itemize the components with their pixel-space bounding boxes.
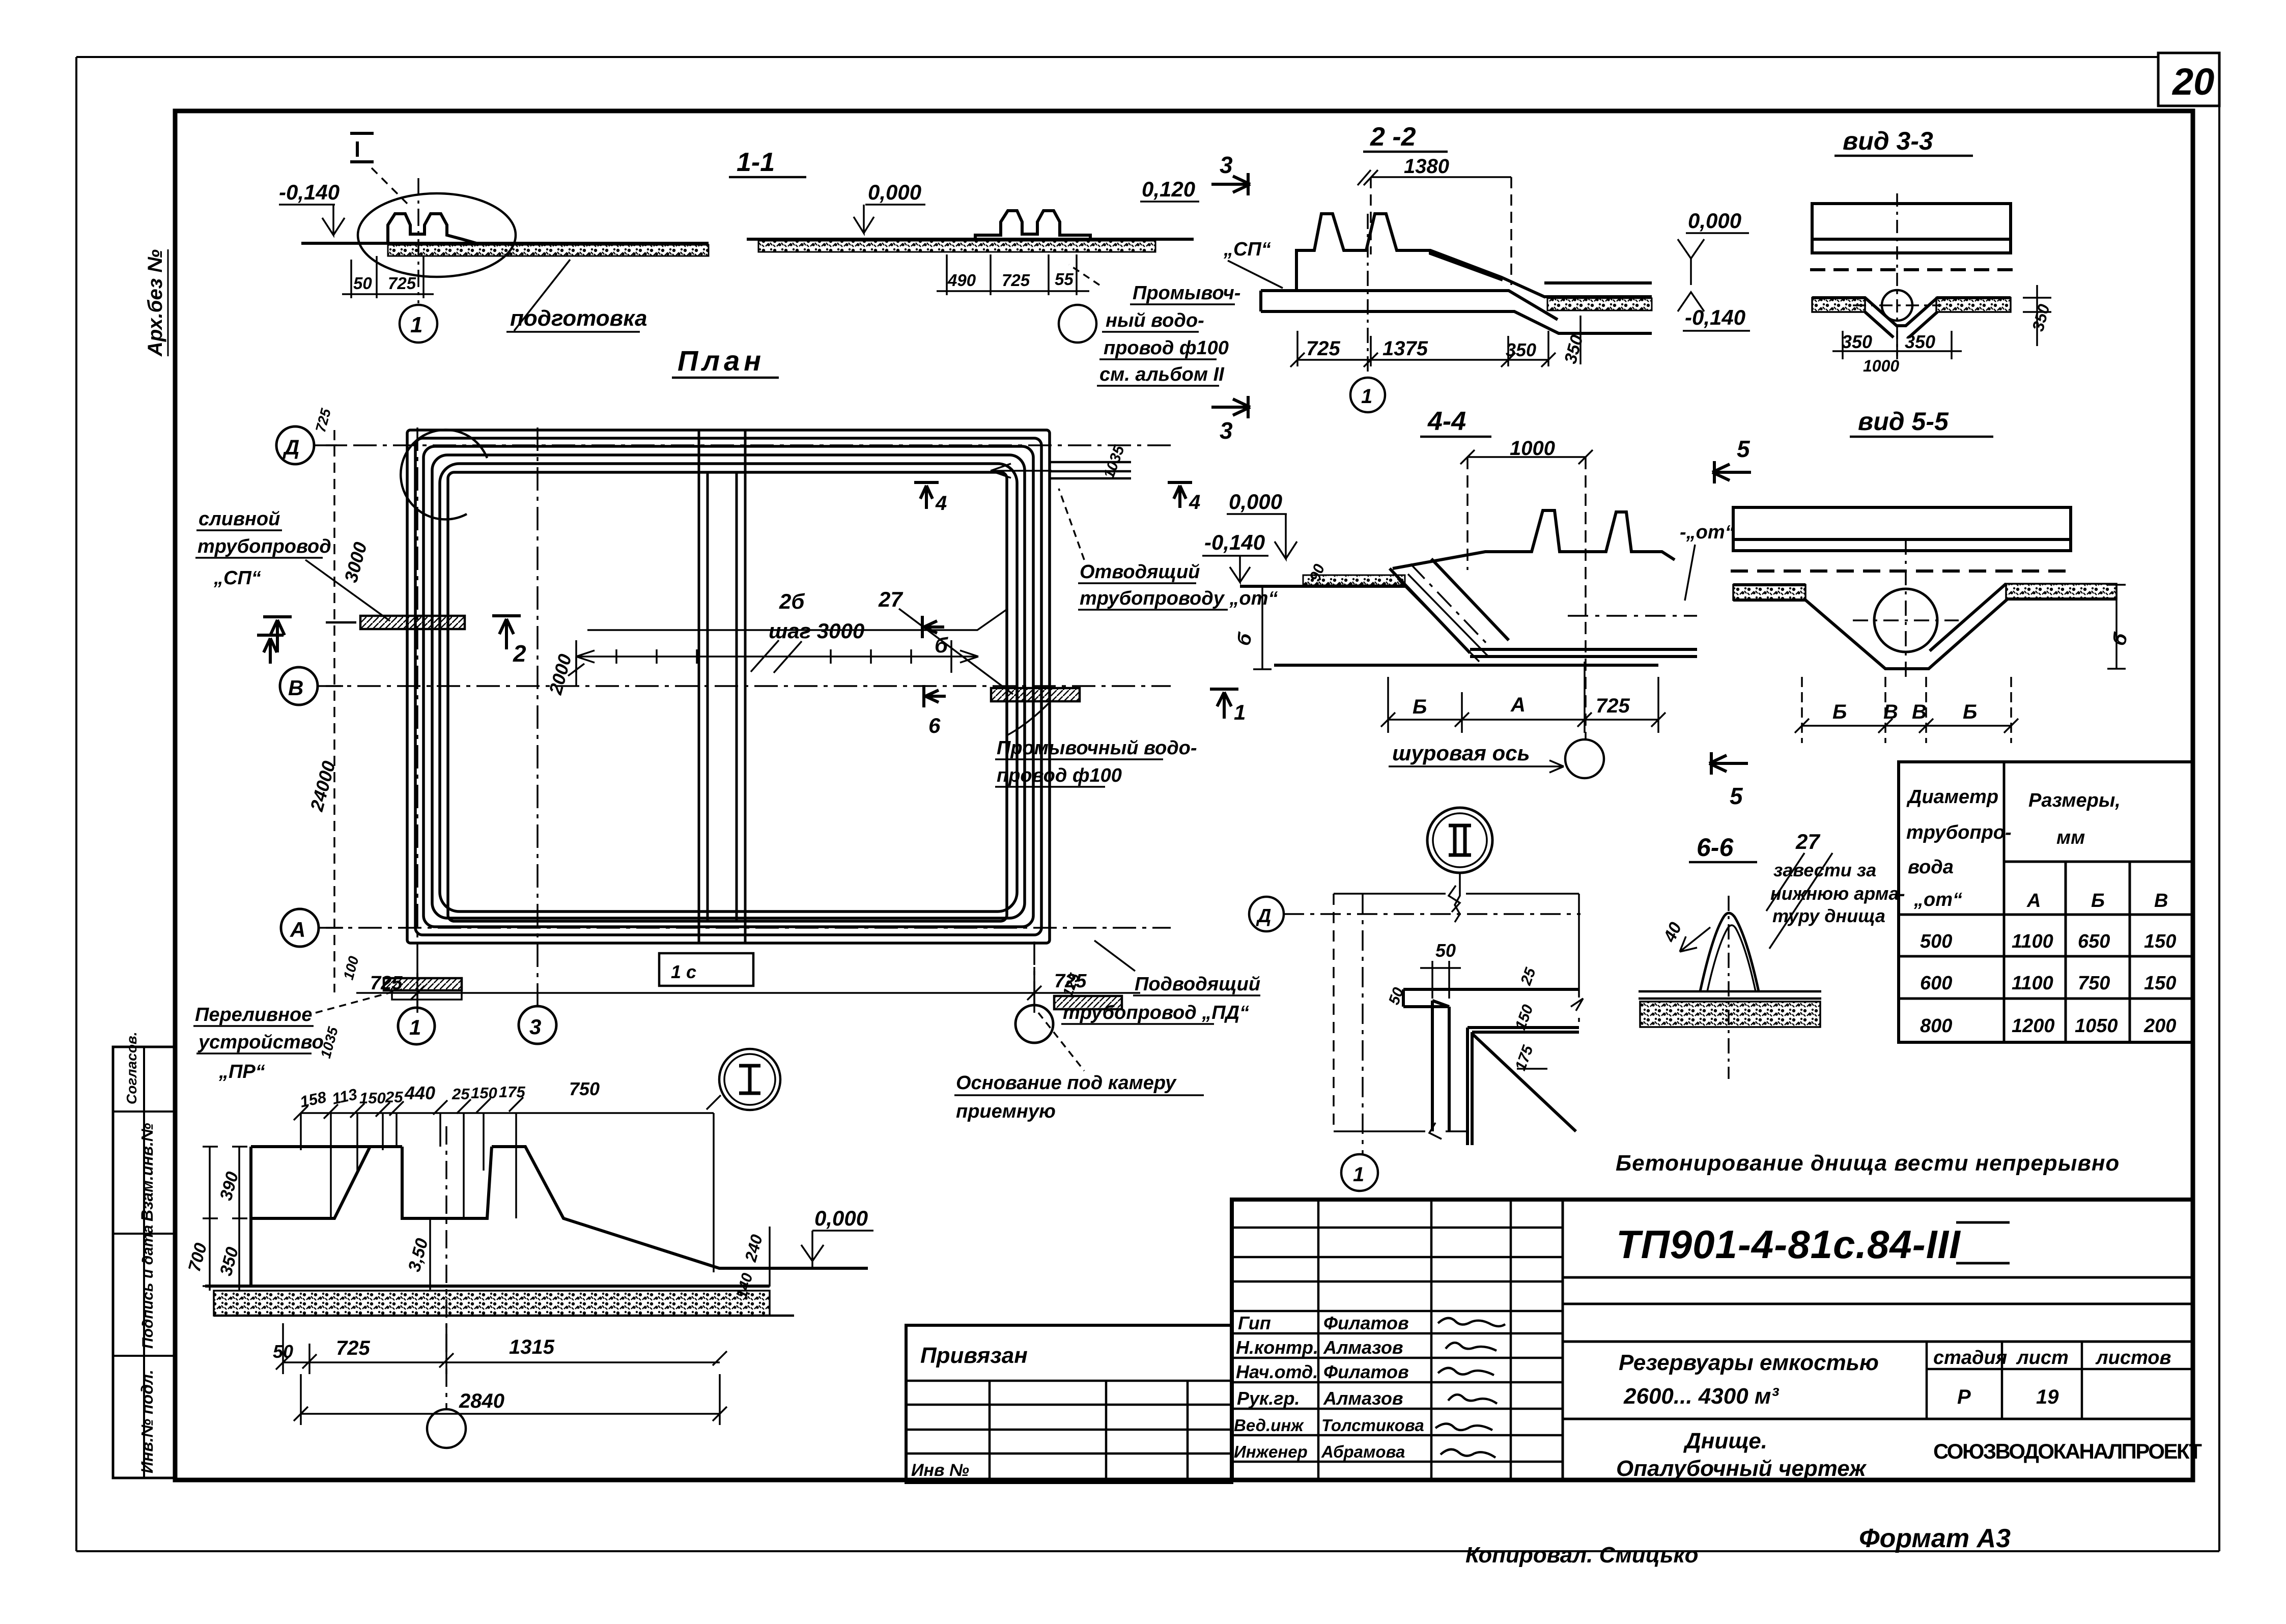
svg-text:350: 350 <box>1842 331 1872 352</box>
top dim line with ticks <box>294 1095 721 1272</box>
svg-text:150: 150 <box>471 1084 497 1102</box>
svg-text:Опалубочный чертеж: Опалубочный чертеж <box>1616 1456 1867 1481</box>
section 5 arrow bottom <box>1709 752 1748 809</box>
view mark 1 arrow (left of plan bottom) <box>257 635 284 664</box>
svg-text:150: 150 <box>2144 973 2176 994</box>
preparation layer hatched <box>388 245 709 256</box>
signature table texts <box>1234 1313 1424 1461</box>
svg-text:725: 725 <box>1002 271 1030 290</box>
svg-text:27: 27 <box>1795 830 1820 853</box>
SP quote label near 2-2 <box>1223 239 1283 288</box>
svg-text:4: 4 <box>1189 491 1200 514</box>
svg-text:см. альбом II: см. альбом II <box>1099 364 1225 385</box>
vertical axis 1 <box>416 428 418 1008</box>
pipe diameter table <box>1899 762 2193 1042</box>
svg-text:6-6: 6-6 <box>1697 833 1734 862</box>
svg-text:3: 3 <box>529 1015 541 1039</box>
pipe promyvochny through right wall <box>991 688 1080 701</box>
label promyvochny vodoprovod f100 <box>995 703 1197 787</box>
svg-text:1375: 1375 <box>1382 337 1428 360</box>
svg-text:„ПР“: „ПР“ <box>218 1061 265 1082</box>
title vid 3-3 <box>1835 127 1973 156</box>
svg-text:2600... 4300 м³: 2600... 4300 м³ <box>1623 1384 1779 1409</box>
svg-text:В: В <box>1883 701 1898 723</box>
axis V <box>280 667 1171 705</box>
right rotated dims 140 240 <box>733 1227 770 1300</box>
svg-text:490: 490 <box>947 271 976 290</box>
pipe OT top right <box>991 462 1131 478</box>
sheet number box 20 <box>2158 53 2219 106</box>
svg-text:Основание под камеру: Основание под камеру <box>956 1072 1177 1094</box>
b vertical dim left <box>1233 586 1272 669</box>
pipe circle in channel <box>1882 290 1912 321</box>
svg-text:трубопровод: трубопровод <box>197 536 331 557</box>
svg-text:Р: Р <box>1957 1386 1971 1408</box>
svg-text:4-4: 4-4 <box>1427 407 1466 436</box>
svg-text:Б: Б <box>1413 696 1427 718</box>
svg-text:Гип: Гип <box>1238 1313 1271 1333</box>
label otvodyashchiy truboprovod ot <box>1059 489 1278 610</box>
axis 1 circle (detail II) <box>1341 1154 1378 1191</box>
svg-text:0,000: 0,000 <box>1229 490 1282 514</box>
svg-text:1 с: 1 с <box>671 961 696 982</box>
svg-text:1315: 1315 <box>509 1336 555 1358</box>
title vid 5-5 <box>1850 407 1993 437</box>
svg-text:шаг 3000: шаг 3000 <box>769 619 864 643</box>
hatch strips <box>1733 585 1805 600</box>
profile bumps right <box>975 211 1090 239</box>
dims 350 350 <box>1832 331 1962 375</box>
svg-text:5: 5 <box>1730 783 1743 809</box>
middle pier <box>699 430 745 943</box>
svg-text:„СП“: „СП“ <box>1223 239 1271 260</box>
axis A <box>281 909 1171 947</box>
shag 3000 dimension inside plan <box>545 587 1013 697</box>
svg-text:А: А <box>2026 890 2041 911</box>
svg-text:1000: 1000 <box>1863 357 1899 375</box>
left dims of detail I <box>185 1147 432 1291</box>
svg-text:Инв.№ подл.: Инв.№ подл. <box>138 1370 156 1473</box>
svg-text:2: 2 <box>513 640 526 667</box>
svg-text:50: 50 <box>353 274 372 293</box>
svg-text:Вед.инж: Вед.инж <box>1234 1416 1304 1435</box>
svg-text:750: 750 <box>569 1078 600 1099</box>
section mark 2 arrows <box>263 616 526 667</box>
svg-text:Промывоч-: Промывоч- <box>1133 282 1240 304</box>
dim 50 (detail II) <box>1420 940 1461 999</box>
svg-text:55: 55 <box>1055 270 1074 289</box>
svg-text:завести за: завести за <box>1773 860 1876 880</box>
svg-text:А: А <box>290 918 305 942</box>
top slab <box>1731 507 2073 571</box>
svg-text:лист: лист <box>2016 1347 2069 1369</box>
svg-text:Подпись и дата: Подпись и дата <box>139 1225 156 1349</box>
inner drawing frame <box>175 111 2193 1480</box>
svg-text:Рук.гр.: Рук.гр. <box>1237 1388 1300 1409</box>
svg-text:Инв №: Инв № <box>911 1461 969 1480</box>
svg-text:650: 650 <box>2078 931 2110 952</box>
svg-text:1: 1 <box>1234 700 1246 724</box>
svg-text:вид 3-3: вид 3-3 <box>1843 127 1933 155</box>
svg-text:750: 750 <box>2078 973 2110 994</box>
corner detail circle callout (plan top-left) <box>401 430 487 520</box>
svg-text:20: 20 <box>2171 61 2214 103</box>
svg-text:500: 500 <box>1920 931 1952 952</box>
pipe PD bottom right <box>1054 996 1122 1009</box>
elevation -0,140 (2-2) <box>1678 292 1750 331</box>
elevation 0,120 + section 3 arrows <box>1140 152 1250 444</box>
view mark 1 arrow (right of plan) <box>1210 689 1246 724</box>
right vertical dim 350 <box>2023 285 2053 346</box>
svg-text:„от“: „от“ <box>1913 889 1962 910</box>
svg-text:Промывочный водо-: Промывочный водо- <box>997 737 1197 759</box>
svg-text:А: А <box>1510 694 1526 716</box>
label podvodyashchiy truboprovod PD <box>1061 941 1260 1024</box>
label 27 with leader <box>1766 830 1832 949</box>
svg-text:СОЮЗВОДОКАНАЛПРОЕКТ: СОЮЗВОДОКАНАЛПРОЕКТ <box>1933 1439 2202 1463</box>
svg-text:План: План <box>678 345 765 377</box>
section mark 6 arrows <box>922 616 948 737</box>
svg-text:б: б <box>935 633 948 657</box>
elevation -0,140 (1-1 left) <box>279 180 345 235</box>
big detail I callout circle <box>719 1049 780 1110</box>
svg-text:трубопровод „ПД“: трубопровод „ПД“ <box>1063 1002 1249 1023</box>
svg-text:трубопро-: трубопро- <box>1906 822 2012 843</box>
title 2-2 <box>1363 122 1448 152</box>
label slivnoy truboprovod SP <box>195 508 390 621</box>
vertical axis right (unlabeled circle) <box>1033 942 1035 1006</box>
title 4-4 <box>1420 407 1491 437</box>
svg-text:200: 200 <box>2143 1015 2176 1037</box>
bottom dims 50 725 1315 <box>273 1323 727 1374</box>
podgotovka label <box>506 260 647 332</box>
svg-text:ТП901-4-81с.84-III: ТП901-4-81с.84-III <box>1616 1222 1961 1267</box>
svg-text:-„от“: -„от“ <box>1680 522 1735 543</box>
elevation 0,000 (1-1 mid) <box>854 180 925 233</box>
rotated small dims detail II <box>1386 965 1547 1073</box>
profile of detail I <box>251 1147 770 1286</box>
svg-text:0,000: 0,000 <box>814 1206 868 1230</box>
svg-text:440: 440 <box>404 1082 435 1103</box>
svg-text:ный водо-: ный водо- <box>1106 310 1204 331</box>
top dims row <box>298 1078 600 1111</box>
svg-text:приемную: приемную <box>956 1101 1056 1122</box>
svg-text:Копировал. Смицько: Копировал. Смицько <box>1465 1543 1699 1568</box>
svg-text:туру днища: туру днища <box>1772 905 1885 926</box>
svg-text:провод ф100: провод ф100 <box>1104 337 1229 359</box>
big II callout circle <box>1427 808 1492 922</box>
vertical axis 3 <box>537 428 539 1007</box>
ground line right segment <box>747 238 1194 241</box>
right vertical dim b <box>2107 585 2132 669</box>
leader dashed from mark to oval <box>372 168 407 204</box>
dashed boundary of detail II <box>1334 886 1583 1154</box>
svg-text:0,120: 0,120 <box>1142 177 1195 201</box>
svg-text:600: 600 <box>1920 973 1952 994</box>
svg-text:мм: мм <box>2056 827 2085 848</box>
6-6 drawing <box>1639 896 1821 1079</box>
svg-text:сливной: сливной <box>199 508 280 530</box>
svg-text:50: 50 <box>273 1341 293 1362</box>
left dimension chain of plan <box>306 407 371 1060</box>
title 6-6 <box>1689 833 1757 862</box>
svg-text:Филатов: Филатов <box>1323 1313 1409 1333</box>
svg-text:Толстикова: Толстикова <box>1321 1416 1424 1435</box>
svg-text:1: 1 <box>1361 385 1372 408</box>
svg-text:725: 725 <box>336 1337 370 1359</box>
svg-text:2 -2: 2 -2 <box>1370 122 1416 152</box>
svg-text:Взам.инв.№: Взам.инв.№ <box>138 1123 156 1221</box>
title block signature table grid <box>1232 1200 1563 1480</box>
label perelivnoe ustroystvo PR <box>193 989 402 1082</box>
ground line left of 4-4 <box>1240 585 1405 588</box>
axis D circle (detail II) <box>1249 897 1581 931</box>
dim 1000 <box>1460 437 1593 739</box>
view mark 4 arrows (top right of plan) <box>914 482 1200 515</box>
elevation 0,000 (4-4) <box>1227 490 1297 559</box>
svg-text:Арх.без №: Арх.без № <box>144 249 166 357</box>
svg-text:350: 350 <box>1905 331 1935 352</box>
section 5 arrow top <box>1712 436 1751 483</box>
svg-text:устройство: устройство <box>197 1032 324 1053</box>
svg-text:листов: листов <box>2095 1347 2171 1369</box>
title block outline <box>1232 1200 2193 1480</box>
title Plan <box>672 345 779 378</box>
V channel big <box>1733 584 2116 669</box>
dims 50 725 <box>342 256 434 298</box>
svg-text:19: 19 <box>2036 1386 2059 1408</box>
svg-text:Резервуары емкостью: Резервуары емкостью <box>1619 1350 1879 1375</box>
svg-text:350: 350 <box>1506 339 1536 360</box>
ot quote label right of 4-4 <box>1680 522 1735 601</box>
detail oval loop <box>358 193 516 277</box>
svg-text:0,000: 0,000 <box>1688 209 1741 233</box>
elevation 0,000 (detail I) <box>801 1206 873 1268</box>
svg-text:1100: 1100 <box>2012 973 2053 994</box>
svg-text:Формат А3: Формат А3 <box>1859 1524 2011 1553</box>
svg-text:вода: вода <box>1908 857 1954 878</box>
svg-text:Отводящий: Отводящий <box>1080 561 1200 583</box>
svg-text:1100: 1100 <box>2012 931 2053 952</box>
svg-text:725: 725 <box>1596 695 1630 717</box>
svg-text:Абрамова: Абрамова <box>1321 1442 1405 1461</box>
svg-text:Инженер: Инженер <box>1234 1442 1308 1461</box>
svg-text:5: 5 <box>1737 436 1751 462</box>
svg-text:Филатов: Филатов <box>1323 1361 1409 1382</box>
svg-text:1380: 1380 <box>1404 155 1449 178</box>
svg-text:-0,140: -0,140 <box>1204 530 1265 554</box>
svg-text:Переливное: Переливное <box>195 1004 312 1025</box>
privyazan table <box>906 1325 1232 1483</box>
svg-text:трубопроводу „от“: трубопроводу „от“ <box>1080 588 1278 609</box>
promyvochny note (multi-line) <box>1069 265 1240 386</box>
bottom dim 2840 <box>294 1374 727 1425</box>
svg-text:725: 725 <box>388 274 416 293</box>
svg-text:Согласов.: Согласов. <box>124 1032 139 1104</box>
svg-text:Нач.отд.: Нач.отд. <box>1236 1361 1318 1382</box>
svg-text:3: 3 <box>1220 152 1233 178</box>
ground line left segment <box>301 242 709 245</box>
svg-text:Алмазов: Алмазов <box>1323 1388 1403 1409</box>
svg-text:150: 150 <box>2144 931 2176 952</box>
svg-text:6: 6 <box>928 714 941 737</box>
svg-text:2840: 2840 <box>459 1390 504 1412</box>
pipe circle <box>1874 589 1937 652</box>
svg-text:800: 800 <box>1920 1015 1952 1037</box>
elevation -0,140 (4-4) <box>1202 530 1268 582</box>
base slab and aggregate <box>205 1268 868 1316</box>
svg-text:Подводящий: Подводящий <box>1135 974 1260 995</box>
svg-text:Размеры,: Размеры, <box>2028 790 2121 811</box>
svg-text:Д: Д <box>283 435 299 459</box>
svg-text:Н.контр.: Н.контр. <box>1236 1337 1318 1358</box>
hatch strips <box>1812 298 1865 312</box>
small rectangle on bottom wall <box>659 953 753 986</box>
svg-text:1050: 1050 <box>2075 1015 2118 1037</box>
pipe SP through left wall <box>326 616 465 629</box>
V channel <box>1812 298 2011 337</box>
signature squiggles <box>1435 1318 1505 1458</box>
plan wall bands (nested rectangles) <box>407 430 1050 943</box>
svg-text:-0,140: -0,140 <box>279 180 340 204</box>
svg-text:В: В <box>1912 701 1927 723</box>
svg-text:725: 725 <box>1306 337 1340 360</box>
svg-text:50: 50 <box>1435 940 1456 961</box>
svg-text:25: 25 <box>451 1085 470 1103</box>
title 1-1 <box>729 148 806 177</box>
svg-text:Днище.: Днище. <box>1683 1429 1767 1454</box>
profile bumps left <box>388 214 476 243</box>
label osnovanie pod kameru <box>954 1013 1204 1122</box>
svg-text:нижнюю арма-: нижнюю арма- <box>1770 883 1905 904</box>
svg-text:1: 1 <box>409 1015 421 1039</box>
svg-text:провод ф100: провод ф100 <box>997 765 1122 786</box>
svg-text:1-1: 1-1 <box>737 148 775 177</box>
svg-text:2б: 2б <box>779 589 805 613</box>
top slab <box>1810 204 2013 270</box>
dims 490 725 55 <box>937 254 1089 295</box>
svg-text:-0,140: -0,140 <box>1685 305 1745 329</box>
svg-text:вид 5-5: вид 5-5 <box>1858 407 1949 436</box>
axis circle 1 under 2-2 <box>1350 214 1385 412</box>
4-4 bottom dims B A 725 <box>1381 662 1666 733</box>
svg-text:В: В <box>288 676 303 700</box>
left margin stamp column <box>113 1032 175 1478</box>
2-2 bottom dims <box>1290 316 1587 367</box>
bottom dims B V V B <box>1795 677 2018 743</box>
bottom dimension line of plan <box>356 967 1140 1013</box>
svg-text:шуровая ось: шуровая ось <box>1392 741 1530 765</box>
note zavesti za <box>1770 860 1905 926</box>
4-4 main body <box>1274 510 1697 665</box>
svg-text:Диаметр: Диаметр <box>1906 786 1998 808</box>
svg-text:3: 3 <box>1220 417 1233 444</box>
svg-text:„СП“: „СП“ <box>213 567 261 589</box>
corner wall lines <box>1403 989 1579 1145</box>
svg-text:Бетонирование днища вести непр: Бетонирование днища вести непрерывно <box>1616 1151 2120 1176</box>
svg-text:Б: Б <box>1963 701 1977 723</box>
section mark I above detail <box>350 133 374 162</box>
elevation 0,000 (2-2) <box>1678 209 1749 285</box>
axis D <box>276 426 1171 464</box>
svg-text:Привязан: Привязан <box>920 1343 1028 1368</box>
svg-text:1: 1 <box>410 312 422 337</box>
svg-text:27: 27 <box>878 587 903 611</box>
svg-text:Алмазов: Алмазов <box>1323 1337 1403 1358</box>
stage/sheet columns <box>1927 1342 2193 1419</box>
svg-text:Б: Б <box>2091 890 2105 911</box>
dim 1380 top <box>1358 155 1511 285</box>
2-2 profile body <box>1261 214 1652 333</box>
svg-text:0,000: 0,000 <box>868 180 921 204</box>
svg-text:1200: 1200 <box>2012 1015 2055 1037</box>
centerline and circle (detail I) <box>427 1126 466 1448</box>
svg-text:стадия: стадия <box>1933 1347 2007 1369</box>
pipe PR through bottom-left wall <box>384 978 462 1000</box>
svg-text:В: В <box>2154 890 2168 911</box>
svg-text:Д: Д <box>1256 905 1271 927</box>
sharovaya os label <box>1389 739 1604 778</box>
svg-text:Б: Б <box>1832 701 1847 723</box>
project name cell <box>1616 1350 1879 1481</box>
left margin handwritten note <box>144 249 168 357</box>
designation cell <box>1563 1222 2193 1419</box>
axis line and circle 1 (section 1-1 left) <box>417 178 419 303</box>
svg-text:1: 1 <box>1353 1163 1364 1186</box>
svg-text:4: 4 <box>935 492 947 515</box>
